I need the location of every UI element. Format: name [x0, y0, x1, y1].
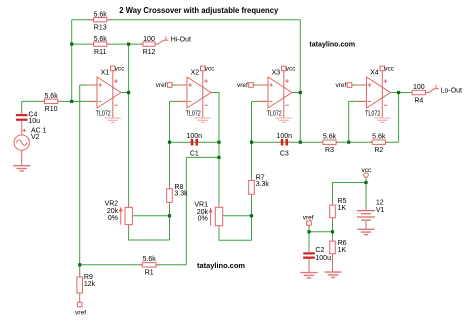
svg-text:5.6k: 5.6k: [372, 134, 386, 141]
wire X1 output: [122, 92, 129, 94]
svg-text:tataylino.com: tataylino.com: [197, 261, 245, 270]
wire X2 output: [211, 92, 219, 94]
svg-text:vref: vref: [335, 82, 346, 89]
junction C1 right: [217, 141, 220, 144]
junction branch y157: [217, 156, 220, 159]
svg-text:0%: 0%: [198, 216, 208, 223]
wire input line to R10 and X1 inverting input: [22, 100, 97, 102]
ground for X2: [195, 118, 211, 122]
junction R7/VR1 wiper: [250, 214, 253, 217]
wire branch at y157: [186, 156, 219, 158]
wire X4 inv node down to R3/R2 junction: [348, 101, 350, 142]
junction R13/R11 left: [70, 43, 73, 46]
capacitor C4: [16, 111, 40, 135]
svg-text:100u: 100u: [315, 255, 331, 262]
terminal vref bottom left: [75, 302, 86, 316]
ground for V2: [13, 166, 30, 171]
svg-text:V1: V1: [376, 207, 385, 214]
svg-text:R2: R2: [374, 147, 383, 154]
svg-text:100: 100: [413, 84, 425, 91]
svg-text:X4: X4: [370, 70, 379, 77]
resistor R12: [140, 36, 158, 56]
wire R8 bottom to VR2 wiper node and loop: [169, 202, 171, 240]
wire drop to C4: [21, 101, 23, 112]
wire vref terminal down to C2: [308, 225, 310, 248]
svg-text:VR1: VR1: [194, 202, 208, 209]
svg-text:vcc: vcc: [384, 66, 395, 73]
svg-text:5.6k: 5.6k: [44, 93, 58, 100]
wire X3 inverting input: [252, 100, 269, 102]
terminal vref X4: [335, 82, 351, 89]
svg-text:2 Way Crossover with adjustabl: 2 Way Crossover with adjustable frequenc…: [119, 5, 278, 15]
wire X2 inverting input: [170, 100, 188, 102]
svg-text:TL072: TL072: [186, 110, 201, 117]
capacitor C2: [303, 247, 331, 272]
wire VR1 wiper line: [223, 215, 252, 217]
wire X2 output down to C1 right and VR1 top: [218, 93, 220, 208]
resistor R2: [370, 134, 388, 154]
svg-text:R1: R1: [145, 270, 154, 277]
svg-text:TL072: TL072: [267, 110, 282, 117]
resistor R4: [410, 84, 429, 104]
battery V1: [357, 199, 385, 229]
svg-text:R11: R11: [94, 49, 106, 56]
wire X4 output down to R2 right: [398, 93, 400, 143]
wire VR1 bottom loop: [219, 226, 252, 241]
svg-text:X2: X2: [191, 70, 200, 77]
wire X3 vref to + input: [253, 84, 268, 86]
svg-text:X3: X3: [272, 70, 281, 77]
capacitor C1: [187, 133, 203, 157]
svg-text:R13: R13: [94, 25, 107, 32]
svg-text:3.3k: 3.3k: [256, 181, 270, 188]
terminal vref X2: [156, 82, 172, 89]
wire vertical R11/R12 node to X1 output to VR2: [128, 44, 130, 207]
svg-text:100n: 100n: [277, 133, 293, 140]
junction R11/R12 node: [127, 43, 130, 46]
svg-text:tataylino.com: tataylino.com: [309, 40, 355, 49]
junction R3/R2 node: [347, 141, 350, 144]
ground for X1: [105, 118, 121, 122]
resistor R10: [41, 93, 61, 113]
wire vertical row A to X3 output to C3 right: [299, 20, 301, 143]
svg-text:R4: R4: [414, 97, 423, 104]
capacitor C3: [277, 133, 293, 157]
svg-text:vref: vref: [303, 215, 314, 222]
wire VR2 wiper line: [133, 215, 170, 217]
op-amp X3: [258, 66, 296, 118]
svg-text:vcc: vcc: [362, 167, 373, 174]
junction R10 right node: [70, 100, 73, 103]
wire VR2 bottom loop: [129, 225, 170, 240]
resistor R7: [249, 174, 270, 197]
wire R5 bottom to R6 top: [332, 218, 334, 241]
svg-text:0%: 0%: [108, 215, 118, 222]
op-amp X1: [87, 66, 125, 118]
svg-text:5.6k: 5.6k: [323, 134, 337, 141]
wire R7 bottom to VR1 wiper node and loop: [251, 194, 253, 240]
resistor R13: [89, 12, 112, 32]
wire R3-R2 line: [300, 141, 398, 143]
wire X3 inv node down to C3 left and R7: [251, 101, 253, 180]
junction X4 output: [397, 91, 400, 94]
svg-text:Lo-Out: Lo-Out: [441, 87, 462, 94]
svg-text:vref: vref: [237, 82, 248, 89]
wire row B (R11-R12 Hi-Out line): [72, 43, 158, 45]
svg-text:R3: R3: [325, 147, 334, 154]
ground for R6: [325, 272, 342, 277]
svg-text:C2: C2: [315, 247, 324, 254]
wire down to R5 top: [332, 183, 334, 206]
wire C3 line: [252, 141, 301, 143]
potentiometer VR1: [194, 202, 222, 229]
svg-text:V2: V2: [31, 134, 40, 141]
svg-text:100n: 100n: [187, 133, 203, 140]
wire R1 line: [80, 264, 187, 266]
svg-text:TL072: TL072: [365, 110, 380, 117]
op-amp X2: [177, 66, 215, 118]
output pin Lo-Out: [429, 85, 462, 94]
wire X1 non-inverting input: [80, 84, 97, 86]
svg-text:Hi-Out: Hi-Out: [171, 36, 191, 43]
resistor R11: [89, 36, 112, 56]
junction C1 left: [168, 141, 171, 144]
output pin Hi-Out: [157, 36, 191, 44]
resistor R8: [167, 184, 188, 206]
wire long vertical to R9/R1 node: [79, 85, 81, 265]
wire R9 drop: [79, 265, 81, 274]
resistor R3: [321, 134, 339, 154]
svg-text:1K: 1K: [338, 205, 347, 212]
junction vref/C2 node: [307, 230, 310, 233]
ground for C2: [301, 273, 318, 278]
junction R5/R6 node: [331, 230, 334, 233]
svg-text:R10: R10: [45, 106, 58, 113]
svg-text:vref: vref: [75, 310, 86, 317]
svg-text:12k: 12k: [84, 281, 96, 288]
wire supply row to R5: [333, 182, 367, 184]
svg-text:vcc: vcc: [205, 66, 216, 73]
junction C3 right: [299, 141, 302, 144]
wire X4 vref to + input: [352, 84, 367, 86]
resistor R1: [139, 256, 160, 276]
junction R9/R1 node: [78, 263, 81, 266]
terminal vcc supply: [362, 167, 373, 177]
junction R8/VR2 wiper: [168, 214, 171, 217]
svg-text:vcc: vcc: [115, 66, 126, 73]
wire X2 inv node down to C1 left and R8: [169, 101, 171, 188]
svg-text:1K: 1K: [338, 247, 347, 254]
AC source V2: [14, 127, 47, 165]
svg-text:3.3k: 3.3k: [174, 191, 188, 198]
wire X3 output: [292, 92, 300, 94]
svg-text:5.6k: 5.6k: [94, 12, 108, 19]
junction X3 output: [299, 91, 302, 94]
junction C3 left: [250, 141, 253, 144]
ground for X3: [276, 118, 292, 122]
wire X4 inverting input: [349, 100, 367, 102]
terminal vref X3: [237, 82, 253, 89]
wire left vertical R13/R11 to R10 node: [71, 20, 73, 102]
svg-text:TL072: TL072: [96, 110, 111, 117]
junction X1 output: [127, 91, 130, 94]
ground for V1: [358, 229, 375, 234]
svg-text:5.6k: 5.6k: [94, 36, 108, 43]
terminal vref supply: [303, 215, 314, 226]
resistor R6: [330, 238, 347, 272]
svg-text:C1: C1: [190, 150, 199, 157]
ground for X4: [374, 118, 390, 122]
wire vcc terminal drop to battery: [365, 177, 367, 208]
svg-text:VR2: VR2: [105, 201, 119, 208]
op-amp X4: [357, 66, 395, 118]
svg-text:X1: X1: [101, 70, 110, 77]
junction vcc supply node: [364, 181, 367, 184]
wire vertical to R1 right: [185, 157, 187, 264]
resistor R9: [77, 271, 96, 302]
svg-text:10u: 10u: [28, 118, 40, 125]
svg-text:vcc: vcc: [286, 66, 297, 73]
svg-text:R12: R12: [143, 49, 156, 56]
svg-text:12: 12: [376, 199, 384, 206]
wire C1 line: [170, 141, 220, 143]
svg-text:100: 100: [143, 36, 155, 43]
wire row A (R13 feedback line): [72, 19, 301, 21]
potentiometer VR2: [105, 201, 133, 228]
svg-text:vref: vref: [156, 82, 167, 89]
svg-text:C3: C3: [280, 150, 289, 157]
resistor R5: [330, 198, 347, 221]
wire X4 output: [391, 92, 411, 94]
wire X2 vref to + input: [172, 84, 187, 86]
svg-text:5.6k: 5.6k: [143, 256, 157, 263]
wire vref node row: [309, 231, 333, 233]
